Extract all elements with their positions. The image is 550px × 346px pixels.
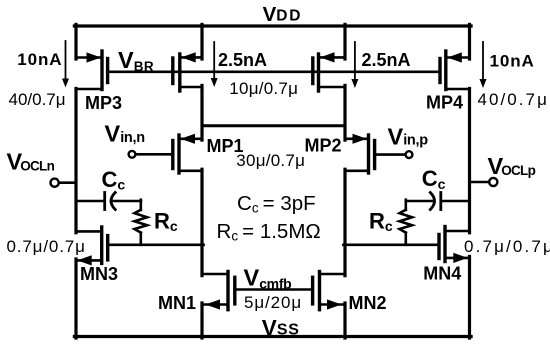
wire first stage output right to MN4 gate xyxy=(343,244,439,247)
wire right rail lower segment (MN4 source to VSS) xyxy=(468,257,471,339)
label MN2 xyxy=(349,293,387,313)
transistor MN3 xyxy=(76,227,108,266)
label Rc right xyxy=(369,209,393,235)
label 2.5nA right xyxy=(362,50,411,70)
label MN4 xyxy=(423,264,461,284)
svg-text:40/0.7μ: 40/0.7μ xyxy=(478,90,549,109)
transistor MP3 xyxy=(76,51,108,90)
svg-text:10nA: 10nA xyxy=(17,50,62,69)
wire tail vertical right (VDD to bias-right source) xyxy=(343,24,346,59)
current arrow 10nA right xyxy=(480,42,487,88)
wire tail vertical left (VDD to bias-left source) xyxy=(200,24,203,59)
transistor MP4 xyxy=(440,51,470,90)
terminal V_OCLp xyxy=(489,178,497,186)
svg-text:40/0.7μ: 40/0.7μ xyxy=(9,90,66,109)
label 30u/0.7u (MP1 MP2 size) xyxy=(236,151,305,170)
label Rc left xyxy=(154,209,178,235)
wire left rail upper segment (VDD to MP3 source) xyxy=(74,24,77,59)
svg-text:5μ/20μ: 5μ/20μ xyxy=(244,293,302,312)
svg-text:2.5nA: 2.5nA xyxy=(218,50,267,70)
transistor bias-left 2.5nA PMOS xyxy=(173,52,202,91)
wire right rail upper segment (VDD to MP4 source) xyxy=(468,24,471,59)
wire Cc left to Rc top xyxy=(113,200,141,203)
wire VSS bottom rail xyxy=(74,335,471,338)
transistor MP2 xyxy=(345,134,375,173)
node V_OCLp label xyxy=(488,153,536,179)
wire V_BR gate line (MP3 gate to MP4 gate, through bias pair gates) xyxy=(108,71,440,74)
label 5u/20u (MN1 MN2 size) xyxy=(244,293,302,312)
node V_BR label xyxy=(118,47,154,74)
wire V_cmfb gate line (MN1 gate to MN2 gate) xyxy=(235,288,313,291)
current arrow 2.5nA right xyxy=(351,42,358,88)
wire right rail middle segment (MP4 drain to MN4 drain, V_OCLp node) xyxy=(468,89,471,233)
svg-text:MN3: MN3 xyxy=(80,264,118,284)
transistor MN1 xyxy=(202,272,235,310)
svg-text:0.7μ/0.7μ: 0.7μ/0.7μ xyxy=(464,237,550,256)
wire V_OCLn to left rail xyxy=(59,181,76,184)
transistor MP1 xyxy=(173,134,202,173)
wire MN3 gate to first stage output left xyxy=(108,244,204,247)
resistor Rc right xyxy=(400,200,413,245)
svg-text:MP2: MP2 xyxy=(305,136,342,156)
label MP4 xyxy=(426,93,463,113)
wire MN1 source to VSS xyxy=(200,303,203,338)
label 10nA left xyxy=(17,50,62,69)
label MN1 xyxy=(158,293,196,313)
svg-text:30μ/0.7μ: 30μ/0.7μ xyxy=(236,151,305,170)
label MP3 xyxy=(85,93,122,113)
wire bias-right drain to MP2 source xyxy=(343,85,346,140)
transistor bias-right 2.5nA PMOS xyxy=(313,52,345,91)
node VDD label xyxy=(263,3,303,26)
label Rc equals 1.5Mohm xyxy=(217,220,321,244)
wire VDD top rail xyxy=(74,24,471,27)
node V_in,p label xyxy=(388,123,429,149)
svg-text:MP3: MP3 xyxy=(85,93,122,113)
wire left output to Cc left plate xyxy=(76,200,103,203)
label MP2 xyxy=(305,136,342,156)
wire MP1 drain down to MN1 drain (first stage output left) xyxy=(200,169,203,275)
wire V_in,n to MP1 gate xyxy=(136,153,173,156)
wire MN2 source to VSS xyxy=(343,303,346,338)
svg-text:10μ/0.7μ: 10μ/0.7μ xyxy=(229,79,298,98)
wire MP2 drain down to MN2 drain (first stage output right) xyxy=(343,169,346,275)
svg-text:MN2: MN2 xyxy=(349,293,387,313)
label 10u/0.7u (bias pair size) xyxy=(229,79,298,98)
svg-text:MN4: MN4 xyxy=(423,264,461,284)
svg-text:0.7μ/0.7μ: 0.7μ/0.7μ xyxy=(7,237,86,256)
svg-text:MP4: MP4 xyxy=(426,93,463,113)
wire source connector between MP1 and MP2 sources xyxy=(202,124,345,127)
wire right rail to V_OCLp xyxy=(470,181,490,184)
label MP1 xyxy=(207,136,244,156)
svg-text:MN1: MN1 xyxy=(158,293,196,313)
node V_cmfb label xyxy=(244,265,292,292)
label 2.5nA left xyxy=(218,50,267,70)
wire Cc right to Rc top xyxy=(406,200,433,203)
wire left rail middle segment (MP3 drain to MN3 drain, V_OCLn node) xyxy=(74,89,77,233)
capacitor Cc left xyxy=(105,193,116,210)
label 40/0.7u left (MP3 size) xyxy=(9,90,66,109)
terminal V_in,p xyxy=(406,151,413,158)
label MN3 xyxy=(80,264,118,284)
node V_in,n label xyxy=(105,120,145,146)
wire left rail lower segment (MN3 source to VSS) xyxy=(74,259,77,338)
label 10nA right xyxy=(490,52,535,71)
label 0.7u/0.7u right (MN4 size) xyxy=(464,237,550,256)
current arrow 2.5nA left xyxy=(211,42,218,87)
transistor MN4 xyxy=(439,227,470,264)
transistor MN2 xyxy=(313,272,345,310)
node V_OCLn label xyxy=(7,149,55,175)
node VSS label xyxy=(262,315,300,340)
svg-text:10nA: 10nA xyxy=(490,52,535,71)
terminal V_OCLn xyxy=(51,179,59,187)
label Cc left xyxy=(102,167,126,193)
wire MP2 gate to V_in,p xyxy=(375,153,406,156)
wire right output to Cc right plate xyxy=(442,200,470,203)
label 0.7u/0.7u left (MN3 size) xyxy=(7,237,86,256)
current arrow 10nA left xyxy=(62,41,69,88)
capacitor Cc right xyxy=(430,193,441,210)
label Cc equals 3pF xyxy=(237,192,316,216)
svg-text:2.5nA: 2.5nA xyxy=(362,50,411,70)
wire bias-left drain to MP1 source xyxy=(200,85,203,140)
label Cc right xyxy=(422,166,446,192)
terminal V_in,n xyxy=(129,151,136,158)
resistor Rc left xyxy=(135,200,148,245)
label 40/0.7u right (MP4 size) xyxy=(478,90,549,109)
svg-text:Cc = 3pF: Cc = 3pF xyxy=(237,192,316,216)
